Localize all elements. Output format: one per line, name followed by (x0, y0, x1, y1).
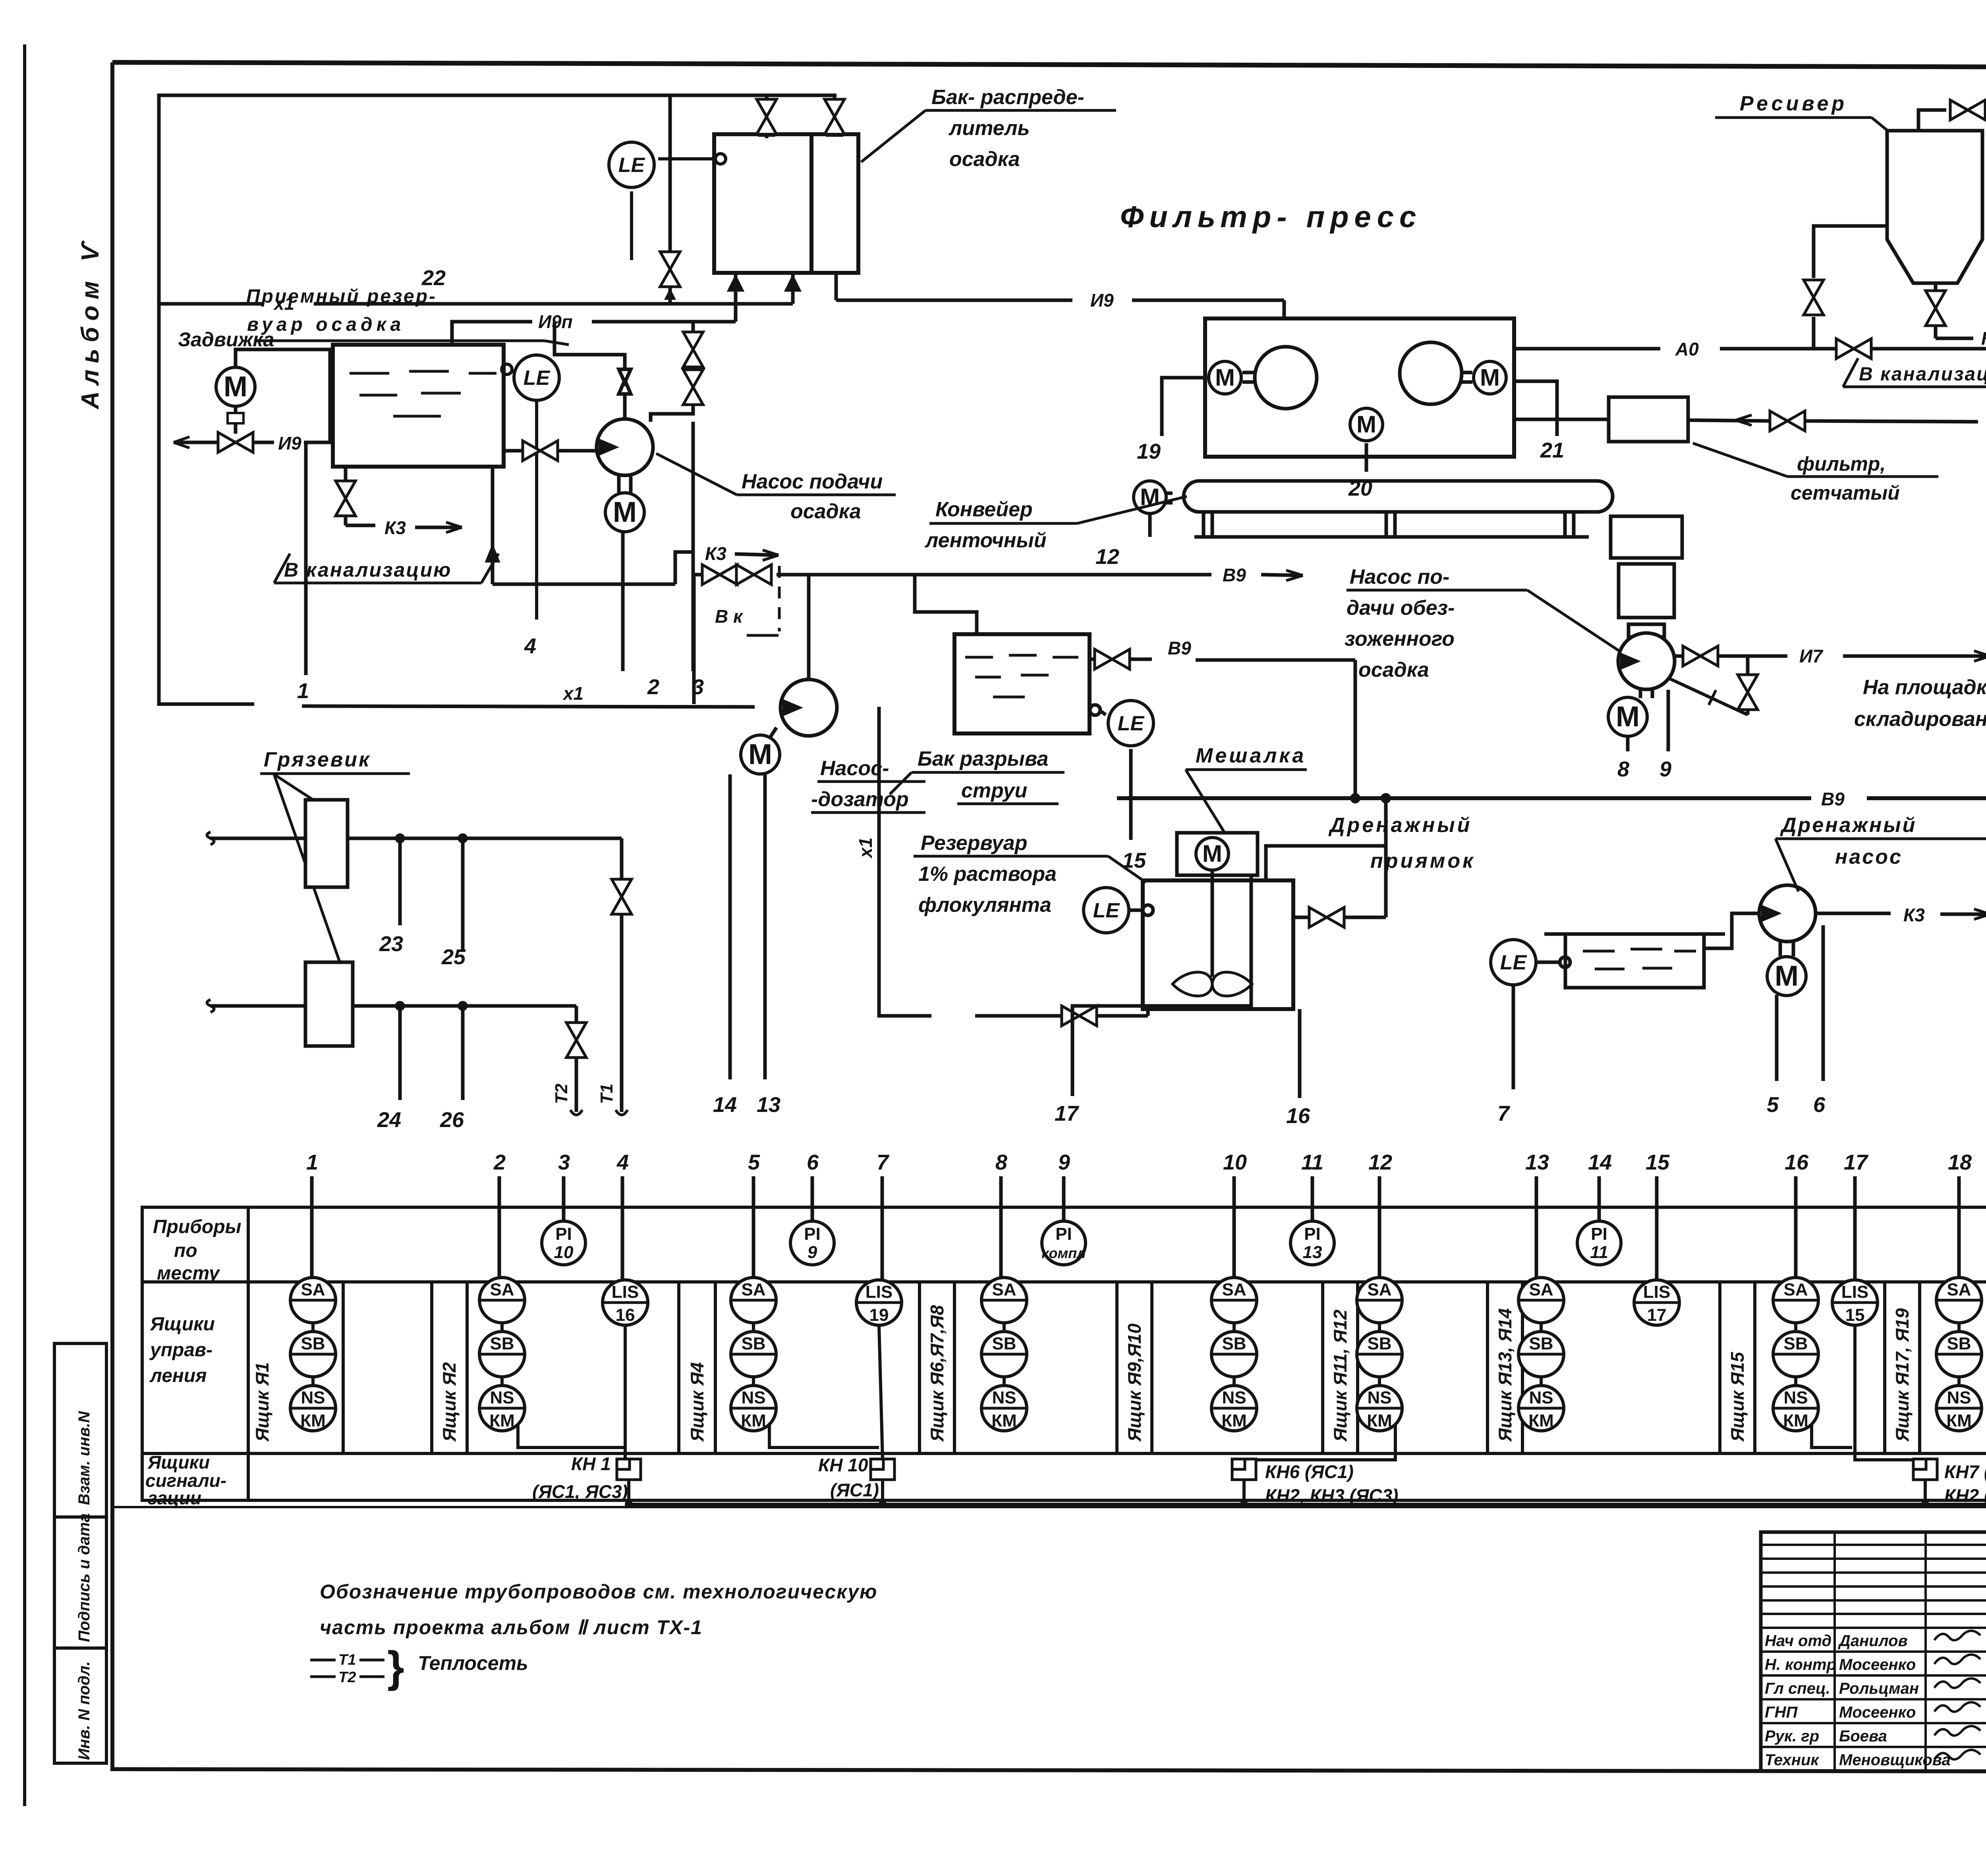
feed elbow from mixer tank top to collector (1266, 846, 1386, 880)
pump: dewatered sludge pump (1611, 492, 1986, 798)
svg-text:(ЯС1): (ЯС1) (830, 1480, 879, 1500)
svg-text:Теплосеть: Теплосеть (418, 1652, 528, 1674)
pipe X1 upper run (159, 302, 264, 306)
svg-text:2: 2 (493, 1150, 506, 1174)
svg-text:SB: SB (301, 1334, 325, 1353)
drain branch (1746, 656, 1750, 675)
svg-text:LIS: LIS (612, 1282, 639, 1302)
right stub wire 21 (1514, 381, 1557, 436)
svg-text:7: 7 (877, 1150, 890, 1174)
svg-text:15: 15 (1646, 1150, 1670, 1174)
control box instrument stack at 4521 (1773, 1278, 1818, 1323)
svg-text:}: } (387, 1642, 404, 1691)
stem: motor to valve (234, 406, 238, 434)
svg-text:(ЯС1, ЯС3): (ЯС1, ЯС3) (532, 1481, 628, 1502)
svg-text:5: 5 (748, 1150, 760, 1174)
svg-text:9: 9 (1660, 757, 1671, 781)
control box instrument stack at 3107 (1211, 1278, 1257, 1323)
svg-text:На площадку: На площадку (1863, 676, 1986, 699)
leader to tank (544, 341, 569, 345)
svg-text:SB: SB (1529, 1334, 1553, 1353)
frame top border (112, 62, 1986, 68)
tank: receiving sludge reservoir (333, 345, 504, 467)
svg-text:сетчатый: сетчатый (1791, 482, 1900, 504)
svg-text:К3: К3 (384, 517, 406, 538)
lower heat line T2 (207, 1000, 214, 1012)
wire 12 (1148, 514, 1152, 537)
svg-text:10: 10 (554, 1243, 574, 1262)
LIS 17 (1634, 1280, 1679, 1325)
svg-text:17: 17 (1647, 1305, 1667, 1325)
svg-text:КМ: КМ (741, 1411, 766, 1430)
svg-text:NS: NS (1783, 1388, 1808, 1407)
pipe И9п (452, 322, 532, 345)
svg-text:Ящики: Ящики (147, 1452, 210, 1473)
svg-text:В9: В9 (1821, 789, 1845, 809)
svg-text:12: 12 (1368, 1150, 1392, 1174)
svg-text:К3: К3 (1903, 905, 1925, 925)
svg-text:х1: х1 (855, 838, 876, 859)
svg-text:КМ: КМ (1221, 1411, 1247, 1430)
svg-text:13: 13 (757, 1093, 780, 1117)
svg-text:Ящик Я4: Ящик Я4 (687, 1362, 707, 1442)
svg-text:И9: И9 (1090, 290, 1114, 311)
svg-text:14: 14 (1588, 1150, 1612, 1174)
svg-text:В канализацию: В канализацию (1859, 364, 1986, 385)
svg-text:NS: NS (301, 1388, 325, 1407)
svg-text:24: 24 (377, 1108, 401, 1132)
pipe А0 filter press to receiver/vacuum (1514, 283, 1986, 354)
svg-text:складирования: складирования (1854, 708, 1986, 731)
svg-text:зоженного: зоженного (1345, 627, 1455, 650)
svg-text:В канализацию: В канализацию (284, 559, 452, 581)
В9 suction line (692, 575, 696, 704)
svg-text:Фильтр- пресс: Фильтр- пресс (1120, 200, 1422, 234)
svg-text:PI: PI (1591, 1224, 1607, 1244)
svg-text:Т2: Т2 (338, 1669, 356, 1686)
drain collector К3 (493, 583, 675, 586)
svg-text:зации: зации (148, 1488, 201, 1508)
svg-text:LIS: LIS (865, 1282, 893, 1302)
svg-text:17: 17 (1055, 1102, 1080, 1125)
X1 vertical to flocculant tank drain (879, 707, 931, 1016)
vessel: receiver (1814, 110, 1986, 378)
right outlet (1293, 916, 1309, 919)
svg-text:SA: SA (992, 1280, 1016, 1299)
svg-text:SA: SA (490, 1280, 514, 1299)
svg-text:Техник: Техник (1765, 1751, 1819, 1769)
svg-text:месту: месту (157, 1263, 220, 1284)
LE stub (1536, 961, 1560, 964)
svg-text:1% раствора: 1% раствора (918, 863, 1057, 886)
center motor stem wire 20 (1365, 443, 1368, 472)
label gap (751, 705, 755, 709)
svg-text:1: 1 (297, 679, 309, 703)
svg-text:К3: К3 (1981, 328, 1986, 349)
svg-text:Т1: Т1 (338, 1652, 356, 1668)
svg-text:насос: насос (1835, 845, 1903, 869)
svg-text:NS: NS (741, 1388, 765, 1407)
svg-text:КМ: КМ (489, 1411, 515, 1430)
motors of filter press (1209, 361, 1241, 394)
control box instrument stack at 2528 (981, 1278, 1027, 1323)
svg-text:NS: NS (992, 1388, 1016, 1407)
svg-text:литель: литель (948, 117, 1030, 140)
svg-text:Ящик Я1: Ящик Я1 (252, 1362, 272, 1442)
В9 line to mixer area (694, 573, 703, 577)
svg-text:флокулянта: флокулянта (918, 894, 1051, 917)
svg-text:В9: В9 (1168, 638, 1191, 658)
node: X1 riser into distribution tank (791, 274, 795, 304)
svg-text:16: 16 (616, 1305, 635, 1325)
svg-text:SA: SA (1529, 1280, 1553, 1299)
frame bottom border (112, 1769, 1986, 1772)
svg-text:Рук. гр: Рук. гр (1765, 1727, 1819, 1745)
LE stub (1090, 705, 1100, 715)
svg-text:Ящик Я15: Ящик Я15 (1727, 1351, 1748, 1442)
svg-text:23: 23 (379, 932, 403, 956)
shaft (1211, 852, 1214, 977)
svg-text:13: 13 (1303, 1243, 1322, 1262)
field instrument PI 10 (542, 1221, 585, 1265)
control box instrument stack at 1264 (479, 1278, 525, 1323)
svg-text:Насос по-: Насос по- (1350, 566, 1449, 589)
svg-text:12: 12 (1095, 545, 1119, 569)
svg-text:13: 13 (1525, 1150, 1549, 1174)
svg-text:КН2, КН3 (ЯС3): КН2, КН3 (ЯС3) (1265, 1485, 1398, 1506)
svg-text:А0: А0 (1675, 339, 1699, 359)
pipe И9 header top (159, 95, 837, 304)
svg-text:15: 15 (1845, 1305, 1865, 1325)
instrument LE on distribution tank (632, 154, 726, 260)
LE (1143, 905, 1153, 915)
svg-text:КМ: КМ (991, 1411, 1017, 1430)
svg-text:Меновщикова: Меновщикова (1839, 1751, 1951, 1769)
motor: gate valve drive M (216, 367, 255, 406)
signal boxes row (518, 1325, 1986, 1504)
svg-text:10: 10 (1223, 1150, 1247, 1174)
svg-text:LIS: LIS (1841, 1282, 1868, 1302)
svg-text:17: 17 (1844, 1150, 1869, 1174)
svg-text:КН2 (ЯС4): КН2 (ЯС4) (1944, 1485, 1986, 1506)
svg-text:NS: NS (1529, 1388, 1553, 1407)
svg-text:SA: SA (1367, 1280, 1391, 1299)
svg-text:Конвейер: Конвейер (935, 498, 1033, 521)
svg-text:9: 9 (808, 1243, 817, 1262)
svg-text:по: по (174, 1240, 197, 1261)
suction from tank (504, 449, 523, 453)
svg-text:КН6 (ЯС1): КН6 (ЯС1) (1265, 1461, 1354, 1482)
svg-text:Гл спец.: Гл спец. (1765, 1680, 1830, 1697)
svg-text:16: 16 (1286, 1104, 1310, 1128)
svg-text:И9: И9 (278, 433, 301, 454)
svg-text:Дренажный: Дренажный (1328, 814, 1472, 837)
coupling (1639, 689, 1642, 698)
field instrument PI 11 (1577, 1221, 1621, 1265)
svg-text:КМ: КМ (1783, 1411, 1808, 1430)
svg-text:Дренажный: Дренажный (1780, 814, 1916, 837)
pump: dosing pump (насос-дозатор) (694, 570, 1303, 1079)
control box instrument stack at 4932 (1936, 1278, 1982, 1323)
svg-text:LIS: LIS (1643, 1282, 1670, 1302)
tank (1143, 880, 1293, 1009)
wires: signal lines down to numbers 1 2 3 (304, 442, 308, 675)
svg-text:PI: PI (1304, 1224, 1321, 1244)
svg-text:9: 9 (1058, 1150, 1070, 1174)
coupling pump to motor (617, 475, 621, 492)
svg-text:3: 3 (558, 1150, 570, 1174)
svg-text:SA: SA (1783, 1280, 1808, 1299)
pit: drainage sump (1513, 913, 1760, 1089)
svg-text:SA: SA (741, 1280, 765, 1299)
svg-text:Ящик Я13, Я14: Ящик Я13, Я14 (1495, 1308, 1515, 1442)
svg-text:ления: ления (149, 1365, 207, 1386)
svg-text:Приборы: Приборы (153, 1216, 241, 1237)
svg-text:SB: SB (1947, 1334, 1971, 1353)
svg-text:вуар осадка: вуар осадка (247, 314, 405, 335)
bottom drain (1934, 283, 1938, 290)
control box instrument stack at 788 (290, 1278, 336, 1323)
svg-text:26: 26 (440, 1108, 464, 1132)
svg-text:Боева: Боева (1839, 1727, 1887, 1745)
outlet to mixer В9 (1090, 658, 1095, 661)
control box instrument stack at 1897 (731, 1278, 776, 1323)
outlet И7 (1675, 654, 1683, 658)
В9 line from mesh filter (1688, 420, 1770, 421)
valve on И9 riser (660, 252, 680, 287)
svg-text:Ящик Я9,Я10: Ящик Я9,Я10 (1124, 1323, 1145, 1442)
svg-text:Ресивер: Ресивер (1740, 92, 1847, 115)
svg-text:Резервуар: Резервуар (921, 832, 1027, 855)
svg-text:струи: струи (961, 779, 1027, 802)
pump suction (1704, 913, 1760, 948)
svg-text:1: 1 (306, 1150, 318, 1174)
svg-text:Обозначение трубопроводов: Обозначение трубопроводов см. технологич… (320, 1581, 877, 1603)
svg-text:Ящик Я2: Ящик Я2 (439, 1362, 460, 1442)
svg-text:Н. контр: Н. контр (1765, 1656, 1836, 1673)
wire LE signal down (630, 191, 633, 260)
control box instrument stack at 3473 (1357, 1278, 1402, 1323)
valve: pump suction (523, 441, 558, 461)
field instrument PI 13 (1291, 1221, 1334, 1265)
filter: mesh filter (1514, 304, 1986, 442)
svg-text:Т1: Т1 (597, 1084, 616, 1104)
svg-text:КМ: КМ (1367, 1411, 1392, 1430)
svg-text:22: 22 (421, 266, 446, 290)
tank: distribution tank (бак-распределитель) (714, 134, 858, 273)
wires 5 6 (1775, 995, 1779, 1081)
check valves on riser 1 (619, 380, 631, 394)
svg-text:19: 19 (869, 1305, 889, 1325)
svg-text:Насос подачи: Насос подачи (742, 470, 883, 493)
wire: motor signal down (621, 524, 625, 584)
wire: riser from И9 header to X1 through valve (668, 95, 672, 304)
mixer: мешалка on flocculant tank (1072, 798, 1386, 1098)
svg-text:Ящик Я6,Я7,Я8: Ящик Я6,Я7,Я8 (927, 1305, 947, 1442)
discharge up to В9 (807, 575, 811, 679)
svg-text:фильтр,: фильтр, (1797, 453, 1886, 475)
svg-text:КМ: КМ (300, 1411, 326, 1430)
valve: gate И9 (218, 432, 253, 452)
svg-text:Грязевик: Грязевик (264, 748, 371, 771)
table outline (142, 1207, 1986, 1500)
valve: flocculant tank drain (1062, 1006, 1097, 1026)
svg-text:SA: SA (301, 1280, 325, 1299)
motor: sludge pump M (605, 493, 644, 532)
wires 17 16 (1072, 875, 1251, 1096)
svg-text:14: 14 (713, 1093, 737, 1117)
svg-text:SA: SA (1947, 1280, 1971, 1299)
svg-text:11: 11 (1301, 1150, 1323, 1174)
valve: tank drain (336, 481, 355, 516)
svg-text:25: 25 (441, 945, 466, 969)
svg-text:КН 10: КН 10 (818, 1455, 868, 1475)
upper heat line T1 (207, 832, 214, 845)
tank drain to sewer К3 (346, 467, 462, 533)
pump: drainage pump (1777, 909, 1986, 1081)
pipe И9 inlet line with gate (174, 441, 274, 444)
tank: jet-break tank (бак разрыва струи) (954, 634, 1090, 733)
wire: И9п riser into tank (734, 274, 738, 322)
wire: LE signal down (535, 400, 538, 620)
svg-text:Мешалка: Мешалка (1196, 744, 1306, 767)
svg-text:Нач отд: Нач отд (1765, 1632, 1831, 1650)
svg-text:ГНП: ГНП (1765, 1704, 1798, 1721)
svg-text:Ящики: Ящики (149, 1314, 215, 1335)
svg-text:SB: SB (1222, 1334, 1246, 1353)
discharge риser 1 (554, 322, 625, 418)
svg-text:5: 5 (1767, 1093, 1779, 1117)
paper edge line left (23, 44, 26, 1806)
svg-text:SB: SB (1783, 1334, 1808, 1353)
machine: filter press (1205, 318, 1514, 457)
svg-text:Мосеенко: Мосеенко (1839, 1656, 1916, 1673)
svg-text:Взам. инв.N: Взам. инв.N (75, 1411, 93, 1505)
svg-text:NS: NS (490, 1388, 514, 1407)
svg-text:SB: SB (992, 1334, 1016, 1353)
wires 14 13 (728, 774, 732, 1079)
svg-text:NS: NS (1367, 1388, 1391, 1407)
diagonal tap (1666, 677, 1748, 715)
svg-text:SB: SB (1367, 1334, 1391, 1353)
svg-text:Рольцман: Рольцман (1839, 1680, 1919, 1697)
svg-text:Бак- распреде-: Бак- распреде- (931, 86, 1084, 109)
svg-text:PI: PI (1055, 1224, 1072, 1244)
LE signal down (1129, 749, 1133, 840)
svg-text:6: 6 (807, 1150, 819, 1174)
svg-text:Инв. N подл.: Инв. N подл. (75, 1661, 93, 1760)
svg-text:К3: К3 (705, 543, 726, 564)
control box instrument stack at 3880 (1518, 1278, 1564, 1323)
svg-text:Приемный резер-: Приемный резер- (246, 286, 437, 307)
pump: sludge feed pump (306, 322, 779, 675)
svg-text:Данилов: Данилов (1838, 1632, 1908, 1650)
motor: conveyor M (1134, 481, 1166, 513)
svg-text:И7: И7 (1799, 646, 1824, 666)
LE signal (1512, 985, 1515, 1089)
svg-text:Мосеенко: Мосеенко (1839, 1704, 1916, 1721)
pipe И9 from distribution tank to filter press (836, 273, 1284, 318)
left stub wire 19 (1162, 378, 1205, 436)
svg-text:управ-: управ- (149, 1339, 213, 1361)
LIS 19 (856, 1280, 902, 1325)
svg-text:8: 8 (1617, 757, 1629, 781)
valves on distribution tank top (761, 95, 840, 138)
svg-text:19: 19 (1137, 440, 1161, 463)
instrument LE on receiving tank (502, 364, 537, 620)
conveyor: belt (1150, 481, 1613, 537)
svg-text:16: 16 (1785, 1150, 1809, 1174)
svg-text:SB: SB (741, 1334, 765, 1353)
bottom signal run (629, 1480, 1986, 1504)
left tap (1814, 226, 1887, 278)
LIS 16 (603, 1280, 648, 1325)
svg-text:КН7 (ЯС1): КН7 (ЯС1) (1944, 1461, 1986, 1482)
svg-text:PI: PI (555, 1224, 572, 1244)
svg-text:4: 4 (524, 634, 536, 658)
wires 8 9 (1626, 735, 1630, 751)
svg-text:Бак разрыва: Бак разрыва (918, 747, 1049, 770)
svg-text:Подпись и дата: Подпись и дата (75, 1513, 93, 1642)
svg-text:В9: В9 (1223, 565, 1246, 585)
svg-text:приямок: приямок (1370, 849, 1476, 872)
svg-text:NS: NS (1222, 1388, 1246, 1407)
svg-text:осадка: осадка (949, 148, 1020, 171)
svg-text:11: 11 (1590, 1243, 1608, 1262)
svg-text:21: 21 (1540, 438, 1564, 462)
svg-text:7: 7 (1497, 1102, 1511, 1125)
svg-text:PI: PI (804, 1224, 821, 1244)
svg-text:2: 2 (647, 675, 659, 699)
riser 2 with two valves (651, 322, 693, 422)
frame left border (110, 62, 114, 1771)
field instrument PI компл (1041, 1221, 1086, 1265)
svg-text:дачи обез-: дачи обез- (1347, 596, 1455, 620)
svg-text:18: 18 (1948, 1150, 1972, 1174)
pipe X1 lower run to dosing pump (159, 304, 1148, 1016)
svg-text:часть проекта альбом: часть проекта альбом Ⅱ лист ТХ-1 (320, 1616, 703, 1639)
svg-text:6: 6 (1813, 1093, 1826, 1117)
coupling (770, 728, 777, 738)
feed from В9 (915, 575, 1355, 840)
field instrument PI 9 (790, 1221, 834, 1265)
svg-text:4: 4 (616, 1150, 629, 1174)
В9 collector (1117, 795, 1986, 801)
svg-text:КМ: КМ (1946, 1411, 1972, 1430)
svg-text:Ящик Я11, Я12: Ящик Я11, Я12 (1330, 1309, 1350, 1442)
svg-text:ленточный: ленточный (924, 529, 1047, 552)
svg-text:В к: В к (715, 606, 744, 627)
svg-text:осадка: осадка (790, 500, 861, 523)
svg-text:SA: SA (1222, 1280, 1246, 1299)
svg-text:SB: SB (490, 1334, 514, 1353)
LIS 15 (1832, 1280, 1878, 1325)
top pipe with valve (1918, 110, 1946, 131)
svg-text:Насос-: Насос- (820, 757, 889, 780)
svg-text:NS: NS (1947, 1388, 1971, 1407)
svg-text:КМ: КМ (1528, 1411, 1554, 1430)
motor yoke of gate valve (236, 349, 330, 442)
svg-text:х1: х1 (562, 683, 583, 704)
svg-text:Т2: Т2 (552, 1083, 571, 1104)
svg-text:осадка: осадка (1358, 658, 1429, 681)
svg-text:КН 1: КН 1 (571, 1453, 611, 1474)
svg-text:Альбом Ѵ: Альбом Ѵ (77, 236, 104, 410)
svg-text:Ящик Я17, Я19: Ящик Я17, Я19 (1892, 1308, 1913, 1442)
svg-text:8: 8 (995, 1150, 1007, 1174)
svg-text:компл: компл (1041, 1245, 1086, 1261)
